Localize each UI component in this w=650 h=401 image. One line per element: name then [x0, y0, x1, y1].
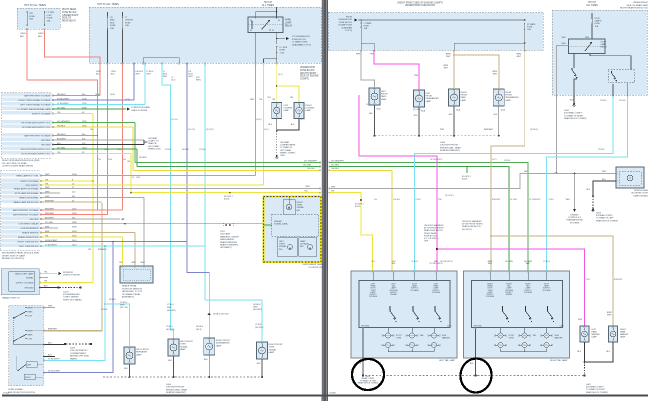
svg-text:FUSE: FUSE [110, 25, 116, 27]
svg-text:LT BLU: LT BLU [548, 199, 555, 201]
svg-text:7.5A: 7.5A [280, 51, 285, 54]
svg-text:PARK: PARK [461, 96, 467, 99]
svg-text:(ON REAR COMPT,: (ON REAR COMPT, [586, 386, 604, 389]
svg-text:WHT: WHT [561, 37, 566, 39]
svg-text:DK GRN: DK GRN [139, 157, 147, 159]
svg-text:(30 T): (30 T) [492, 159, 497, 161]
svg-text:PARK: PARK [28, 310, 34, 313]
svg-text:YEL: YEL [44, 281, 48, 283]
svg-text:(UNDER RIGHT: (UNDER RIGHT [62, 15, 79, 17]
svg-text:TO REAR OF RIGHT: TO REAR OF RIGHT [564, 114, 584, 117]
svg-text:LT BLU: LT BLU [199, 149, 206, 151]
svg-text:REAR SEAT): REAR SEAT) [62, 20, 76, 23]
svg-text:YEL: YEL [90, 129, 94, 131]
svg-text:BRN/WHT: BRN/WHT [484, 129, 494, 131]
svg-text:BLK: BLK [449, 114, 453, 116]
svg-text:BLK: BLK [48, 355, 52, 357]
svg-text:PANEL DIM SIGNAL: PANEL DIM SIGNAL [19, 197, 39, 200]
svg-text:(DIAGRAM: (DIAGRAM [342, 26, 353, 29]
svg-text:MULTIFUNCTION SWITCH: MULTIFUNCTION SWITCH [8, 392, 35, 394]
svg-text:(DIAGRAM 2 OF 3): (DIAGRAM 2 OF 3) [292, 43, 311, 46]
svg-text:ORG: ORG [104, 149, 109, 151]
svg-text:BLK: BLK [20, 36, 25, 38]
svg-text:SIGNAL: SIGNAL [26, 276, 34, 279]
svg-text:SIGNAL: SIGNAL [269, 348, 277, 351]
svg-text:LOW: LOW [28, 338, 33, 340]
svg-text:BLK: BLK [48, 343, 52, 345]
svg-text:BATT/PRSTRKT VOLTAGE: BATT/PRSTRKT VOLTAGE [13, 213, 39, 216]
svg-text:FUSE: FUSE [125, 22, 131, 24]
svg-text:WHT: WHT [305, 186, 310, 188]
svg-text:DASH BEHIND: DASH BEHIND [220, 238, 235, 241]
svg-text:LINES SYSTEM: LINES SYSTEM [131, 110, 147, 112]
svg-text:(30 S): (30 S) [196, 329, 202, 331]
svg-text:LAMP: LAMP [269, 351, 275, 354]
svg-text:LT BLU: LT BLU [504, 160, 511, 162]
svg-text:YEL: YEL [259, 99, 263, 101]
svg-text:COMPARTMENT: COMPARTMENT [70, 352, 87, 355]
svg-text:LAMP: LAMP [620, 336, 626, 339]
svg-text:INTERIOR: INTERIOR [63, 272, 73, 274]
svg-text:LT BLU: LT BLU [600, 100, 607, 102]
svg-text:(TO RR GPS 1): (TO RR GPS 1) [429, 263, 443, 265]
svg-text:ALL TIMES: ALL TIMES [262, 4, 274, 7]
svg-text:RIGHT INTEGRATION MODULE (RIM): RIGHT INTEGRATION MODULE (RIM) [2, 159, 40, 162]
svg-text:BLK: BLK [204, 359, 208, 361]
svg-text:UNDERHOOD: UNDERHOOD [338, 19, 352, 21]
svg-text:BLK: BLK [414, 115, 418, 117]
svg-text:PARK: PARK [381, 95, 387, 98]
svg-text:(ON PASSENGER: (ON PASSENGER [63, 293, 80, 296]
svg-text:ORG/: ORG/ [38, 33, 44, 35]
svg-text:LAMP: LAMP [216, 344, 222, 347]
svg-text:LT BLU: LT BLU [411, 261, 418, 263]
svg-text:PANEL): PANEL) [70, 357, 78, 360]
svg-text:HOT AT ALL TIMES: HOT AT ALL TIMES [24, 4, 46, 7]
svg-text:(30 WHT): (30 WHT) [167, 310, 176, 312]
svg-text:VOLTAGE: VOLTAGE [486, 295, 495, 298]
svg-text:18: 18 [132, 177, 134, 179]
svg-text:LT PARK: LT PARK [364, 22, 373, 25]
svg-text:LT BLU: LT BLU [619, 100, 626, 102]
svg-text:YEL/BLK: YEL/BLK [393, 199, 401, 201]
svg-text:(30 GRN/WHT): (30 GRN/WHT) [430, 159, 443, 161]
svg-text:TURN SIGNAL/: TURN SIGNAL/ [8, 388, 24, 391]
svg-text:YEL: YEL [267, 97, 271, 99]
svg-text:RT PARK: RT PARK [527, 23, 536, 26]
svg-text:LEFT REAR: LEFT REAR [148, 145, 160, 148]
svg-text:SIDEMARKER: SIDEMARKER [426, 97, 440, 100]
svg-text:PANEL LAMP SW SIG SIG: PANEL LAMP SW SIG SIG [13, 201, 38, 204]
svg-text:LT BLU: LT BLU [543, 261, 550, 263]
svg-text:LT BLU: LT BLU [255, 324, 262, 326]
svg-text:LT BLU: LT BLU [166, 326, 173, 328]
svg-text:BLK: BLK [124, 368, 128, 370]
svg-text:PARK: PARK [28, 333, 34, 336]
svg-text:INSTRUMENT PANEL MODULE (IPM): INSTRUMENT PANEL MODULE (IPM) [2, 252, 39, 255]
svg-text:HOT AT ALL TIMES: HOT AT ALL TIMES [97, 3, 119, 6]
svg-text:(RIGHT SIDE OF DASH: (RIGHT SIDE OF DASH [2, 254, 25, 257]
svg-text:G100: G100 [166, 384, 172, 386]
svg-text:RED: RED [585, 37, 590, 39]
svg-text:15A: 15A [29, 18, 33, 21]
svg-text:DK GRN: DK GRN [57, 107, 65, 109]
svg-text:85: 85 [250, 30, 252, 32]
svg-text:BUS: BUS [110, 22, 115, 24]
svg-text:(30 GRN): (30 GRN) [413, 109, 421, 111]
svg-text:OF BRAKE PEDAL: OF BRAKE PEDAL [122, 293, 141, 296]
svg-text:(30 W): (30 W) [256, 119, 262, 121]
svg-text:(ON RIGHT FRONT: (ON RIGHT FRONT [166, 387, 185, 389]
svg-text:REAR FORESHELL: REAR FORESHELL [220, 244, 240, 247]
svg-text:VOLTAGE: VOLTAGE [410, 289, 419, 292]
svg-text:PARK LAMP RLY CTRL: PARK LAMP RLY CTRL [16, 174, 39, 177]
svg-text:RIGHT REAR: RIGHT REAR [424, 232, 437, 235]
svg-text:GMLAN: GMLAN [274, 220, 282, 223]
svg-text:BATT/PRSTRKT VOLTAGE: BATT/PRSTRKT VOLTAGE [24, 134, 51, 137]
svg-text:WHT: WHT [48, 306, 53, 308]
svg-text:DK BLU: DK BLU [182, 149, 189, 151]
svg-text:ORG: ORG [117, 149, 122, 151]
svg-text:GROUND: GROUND [29, 219, 39, 221]
svg-text:ON LEFT SIDE OF REAR: ON LEFT SIDE OF REAR [2, 162, 27, 165]
svg-text:BRN: BRN [132, 262, 137, 264]
svg-text:DK GRN/WHT: DK GRN/WHT [304, 160, 318, 162]
svg-text:WHT: WHT [45, 196, 50, 198]
svg-text:LT BLU: LT BLU [598, 149, 605, 151]
svg-text:CLUSTER (IPC): CLUSTER (IPC) [308, 267, 324, 269]
svg-text:REPEATER: REPEATER [136, 351, 148, 354]
svg-text:LIGHTS SYSTEM: LIGHTS SYSTEM [63, 275, 80, 277]
svg-text:WHT: WHT [45, 226, 50, 228]
svg-text:SIGNAL: SIGNAL [279, 245, 287, 248]
svg-text:TURN: TURN [509, 337, 515, 339]
svg-text:DK GRN: DK GRN [303, 164, 311, 166]
svg-text:ON REAR: ON REAR [280, 141, 290, 144]
svg-text:(30 WHT): (30 WHT) [253, 309, 262, 311]
svg-text:(ON CROSSBODY: (ON CROSSBODY [70, 350, 88, 352]
svg-text:COMPT, UNDER REAR SHELF): COMPT, UNDER REAR SHELF) [2, 165, 33, 168]
svg-text:TAIL: TAIL [420, 334, 424, 337]
svg-text:TO REAR OF LEFT: TO REAR OF LEFT [596, 217, 614, 220]
svg-text:YEL: YEL [272, 99, 276, 101]
svg-text:BATT/PRSTRKT VOLTAGE: BATT/PRSTRKT VOLTAGE [24, 94, 51, 97]
svg-text:FENDER RAIL, NEAR: FENDER RAIL, NEAR [440, 146, 461, 149]
svg-text:BUMPER BRACKET): BUMPER BRACKET) [440, 149, 460, 152]
svg-text:TO REAR OF: TO REAR OF [280, 146, 293, 149]
svg-text:WHT: WHT [517, 56, 522, 58]
svg-text:RED/WHT: RED/WHT [45, 213, 55, 215]
svg-text:LAMP: LAMP [284, 109, 290, 112]
svg-text:SIGNAL: SIGNAL [297, 206, 305, 209]
svg-text:SIGNAL: SIGNAL [180, 345, 188, 348]
svg-text:BRN/WHT: BRN/WHT [45, 200, 55, 202]
svg-text:(30 Y10): (30 Y10) [120, 307, 128, 309]
svg-text:(30 Y56): (30 Y56) [188, 129, 195, 131]
svg-text:LAMP (CHMSL): LAMP (CHMSL) [633, 194, 648, 197]
svg-text:RIGHT REAR FUSE BLOCK: RIGHT REAR FUSE BLOCK [620, 6, 648, 9]
svg-text:LAMP: LAMP [180, 348, 186, 351]
svg-text:DK BLU (30 Y56): DK BLU (30 Y56) [213, 314, 229, 316]
svg-text:(30 Y): (30 Y) [264, 129, 269, 131]
svg-text:LEFT TURN SW SIG: LEFT TURN SW SIG [19, 246, 39, 248]
svg-text:G104: G104 [440, 142, 446, 144]
svg-text:DK GRN/WHT: DK GRN/WHT [57, 121, 71, 123]
svg-text:(30 B105): (30 B105) [530, 129, 538, 131]
svg-text:BRN/WHT: BRN/WHT [98, 249, 108, 251]
svg-text:DK GRN/WHT: DK GRN/WHT [529, 199, 541, 201]
svg-text:DK GRN: DK GRN [510, 199, 518, 201]
svg-text:RIGHT: RIGHT [25, 377, 31, 379]
svg-text:REAR FUSE BLOCK: REAR FUSE BLOCK [424, 229, 443, 232]
svg-text:LAMP: LAMP [592, 336, 598, 339]
svg-text:(ON DASH: (ON DASH [220, 233, 231, 236]
svg-text:LT BLU/WHT: LT BLU/WHT [57, 103, 69, 105]
svg-text:BLK: BLK [494, 114, 498, 116]
svg-text:REAR SHOCK TOWER): REAR SHOCK TOWER) [358, 382, 379, 385]
svg-text:LAMP: LAMP [505, 99, 511, 102]
svg-text:RR TURN SIGN SUPPLY VOL: RR TURN SIGN SUPPLY VOL [21, 122, 51, 124]
svg-text:WHT: WHT [45, 187, 50, 189]
svg-text:DK BLU: DK BLU [109, 299, 116, 301]
svg-text:170608: 170608 [329, 393, 337, 395]
svg-text:LEFT FRONT: LEFT FRONT [136, 349, 150, 351]
svg-text:RIGHT TAIL LAMP: RIGHT TAIL LAMP [550, 359, 568, 362]
svg-text:15A: 15A [47, 19, 51, 22]
svg-text:ON BODY HARNESS: ON BODY HARNESS [424, 224, 444, 227]
svg-text:BRN/WHT: BRN/WHT [614, 279, 623, 281]
svg-text:SIGNAL: SIGNAL [390, 293, 397, 296]
svg-text:ASSEMBLY): ASSEMBLY) [122, 296, 134, 299]
svg-text:INSTRUMENT PANEL: INSTRUMENT PANEL [303, 263, 325, 266]
svg-text:VOLTAGE: VOLTAGE [432, 291, 441, 294]
svg-text:FUSE: FUSE [47, 18, 53, 20]
svg-text:WHT: WHT [45, 174, 50, 176]
svg-text:LEFT FRONT: LEFT FRONT [180, 341, 194, 343]
svg-text:LO SPEED GMLAN SERIAL DATA: LO SPEED GMLAN SERIAL DATA [17, 108, 51, 111]
svg-text:COMPT): COMPT) [300, 79, 309, 81]
svg-text:WHT): WHT) [196, 80, 201, 82]
svg-text:IND: IND [279, 249, 283, 251]
svg-text:FROM: FROM [346, 17, 352, 19]
svg-text:(30 GPS 1): (30 GPS 1) [445, 195, 454, 197]
svg-text:SIDEMARKER: SIDEMARKER [216, 342, 230, 345]
svg-text:COMPUTER DATA: COMPUTER DATA [131, 106, 150, 109]
svg-text:RIGHT TURN SW SIG: RIGHT TURN SW SIG [18, 241, 39, 243]
svg-text:C406: C406 [560, 326, 564, 328]
svg-text:DK GRN/WHT: DK GRN/WHT [331, 160, 345, 162]
svg-text:C207: C207 [220, 231, 226, 233]
svg-text:YEL: YEL [88, 249, 92, 251]
svg-text:DK BLU/WHT: DK BLU/WHT [48, 371, 61, 373]
svg-text:WHT: WHT [356, 54, 361, 56]
svg-text:FUSE BLOCK: FUSE BLOCK [300, 70, 315, 72]
svg-text:BRAKE SENSOR SIG: BRAKE SENSOR SIG [18, 236, 39, 239]
svg-text:FUSE BLOCK: FUSE BLOCK [62, 12, 77, 14]
svg-text:DK BLU: DK BLU [196, 326, 204, 328]
svg-text:LR STOP/TURN SUPPLY VOL: LR STOP/TURN SUPPLY VOL [21, 153, 51, 155]
svg-text:LT BLU/WHT: LT BLU/WHT [45, 244, 57, 246]
svg-text:REAR SHOCK TOWER): REAR SHOCK TOWER) [596, 219, 618, 222]
svg-text:SIDE OF REAR SEAT: SIDE OF REAR SEAT [626, 4, 648, 7]
svg-text:FUSE: FUSE [29, 16, 35, 18]
svg-text:POSITION SENSOR: POSITION SENSOR [122, 288, 142, 290]
svg-text:LOW: LOW [28, 315, 33, 317]
svg-text:RELAY: RELAY [601, 46, 608, 49]
svg-text:BLK: BLK [257, 363, 261, 365]
svg-text:BLK: BLK [168, 360, 172, 362]
svg-text:HEADLAMPS ON SIGNAL: HEADLAMPS ON SIGNAL [14, 187, 40, 190]
svg-text:LAMP: LAMP [381, 98, 387, 101]
svg-text:YEL: YEL [119, 262, 123, 264]
svg-text:YEL: YEL [371, 261, 375, 263]
svg-text:TO REAR OF RIGHT: TO REAR OF RIGHT [586, 388, 606, 391]
svg-text:(30 B): (30 B) [125, 99, 130, 101]
svg-text:TURN: TURN [180, 344, 186, 346]
svg-text:OUTAGE: OUTAGE [300, 243, 309, 246]
svg-text:BRN/WHT: BRN/WHT [48, 329, 58, 331]
svg-text:ON BODY HARNESS: ON BODY HARNESS [462, 220, 482, 223]
svg-text:LEFT TAIL LAMP: LEFT TAIL LAMP [439, 359, 456, 362]
svg-text:30: 30 [278, 20, 280, 22]
svg-text:FUSE: FUSE [280, 50, 286, 52]
svg-text:TURN: TURN [269, 347, 275, 349]
svg-text:G209: G209 [70, 348, 76, 350]
svg-text:LT BLU/WHT: LT BLU/WHT [48, 359, 60, 361]
svg-text:LAMPS: LAMPS [595, 20, 602, 23]
svg-text:(RIGHT FRONT: (RIGHT FRONT [300, 73, 317, 75]
svg-text:RED/BLK: RED/BLK [57, 134, 66, 136]
svg-text:B-105: B-105 [462, 179, 468, 181]
svg-text:CHROM: CHROM [125, 20, 133, 22]
svg-text:MARKER: MARKER [442, 336, 451, 339]
svg-text:LAMP: LAMP [300, 240, 306, 243]
svg-text:LO SRS: LO SRS [280, 47, 288, 49]
svg-text:REAR FUSE BLOCK: REAR FUSE BLOCK [462, 225, 481, 228]
svg-text:WHT: WHT [607, 315, 612, 317]
svg-text:SIDE OF ENGINE: SIDE OF ENGINE [300, 76, 319, 78]
svg-text:LT PARK FUSE: LT PARK FUSE [292, 41, 308, 44]
svg-text:YEL: YEL [127, 161, 131, 163]
svg-text:PARK: PARK [285, 19, 292, 22]
svg-text:86: 86 [250, 20, 252, 22]
svg-text:(30 SCN): (30 SCN) [206, 129, 214, 131]
svg-text:(ATTACHED TO TOP: (ATTACHED TO TOP [122, 290, 143, 293]
svg-text:BRN: BRN [45, 231, 50, 233]
svg-text:DK BLU/WHT: DK BLU/WHT [45, 240, 58, 242]
svg-text:PNK: PNK [578, 319, 583, 321]
svg-text:BLK/WHT: BLK/WHT [57, 138, 67, 140]
svg-text:LT BLU: LT BLU [165, 149, 172, 151]
svg-text:BRAKE SENSOR: BRAKE SENSOR [22, 231, 39, 234]
svg-text:TAIL: TAIL [533, 334, 537, 337]
svg-text:RED/BLK: RED/BLK [57, 94, 66, 96]
svg-text:LAMP: LAMP [461, 99, 467, 102]
svg-text:WHEEL,G305: WHEEL,G305 [148, 148, 161, 150]
svg-text:BLK: BLK [38, 36, 43, 38]
svg-text:HARNESS, UNDER: HARNESS, UNDER [220, 235, 239, 238]
svg-text:PNK: PNK [414, 75, 419, 77]
svg-text:VOLTAGE: VOLTAGE [542, 289, 551, 292]
svg-text:GROUND: GROUND [41, 144, 51, 146]
svg-text:1340: 1340 [108, 159, 112, 161]
svg-text:(IN REAR COMPT,: (IN REAR COMPT, [596, 214, 613, 217]
svg-text:BLU: BLU [172, 80, 176, 82]
svg-text:BATT/PRSTRKT VOLTAGE: BATT/PRSTRKT VOLTAGE [13, 209, 39, 212]
svg-text:SIGNAL: SIGNAL [506, 293, 513, 296]
svg-text:(30 A): (30 A) [110, 93, 115, 96]
svg-text:REAR/STEERING: REAR/STEERING [220, 241, 237, 244]
svg-text:LAMP: LAMP [136, 353, 142, 356]
svg-text:RIGHT REAR: RIGHT REAR [62, 8, 76, 11]
svg-text:YEL/BLK: YEL/BLK [307, 168, 316, 170]
svg-text:DK GRN: DK GRN [57, 147, 65, 149]
svg-text:DK GRN: DK GRN [505, 261, 513, 263]
svg-text:STOP LAMP SW SIGNAL: STOP LAMP SW SIGNAL [15, 192, 40, 195]
svg-text:SIGNAL DATA: SIGNAL DATA [274, 223, 288, 226]
svg-text:642: 642 [123, 159, 126, 161]
svg-text:ON REAR: ON REAR [148, 137, 158, 140]
svg-text:WHT: WHT [45, 191, 50, 193]
svg-text:VOLTAGE: VOLTAGE [369, 295, 378, 298]
svg-text:BUMPER BRACKET): BUMPER BRACKET) [166, 391, 186, 394]
svg-text:SUPPLY VOLTAGE: SUPPLY VOLTAGE [32, 112, 51, 115]
svg-text:LAMP: LAMP [285, 21, 292, 24]
svg-text:TO UNDERHOOD: TO UNDERHOOD [292, 36, 310, 38]
svg-text:BLK: BLK [369, 113, 373, 115]
svg-text:MARKER: MARKER [555, 336, 564, 339]
svg-text:ORG/: ORG/ [20, 33, 26, 35]
svg-text:B-105: B-105 [355, 206, 361, 208]
svg-text:LR TURN SIGN SUPPLY VOL: LR TURN SIGN SUPPLY VOL [22, 127, 52, 129]
svg-text:WHT: WHT [561, 43, 566, 45]
svg-text:WHT: WHT [167, 307, 172, 309]
svg-text:RIGHT FRONT: RIGHT FRONT [216, 340, 231, 342]
svg-text:RR STOP/TURN SUPPLY VOL: RR STOP/TURN SUPPLY VOL [21, 149, 52, 151]
svg-text:VOLTAGE: VOLTAGE [524, 291, 533, 294]
svg-text:BEHIND GLOVE BOX): BEHIND GLOVE BOX) [2, 258, 24, 260]
svg-text:(RIGHT FRONT SIDE OF ENGINE CO: (RIGHT FRONT SIDE OF ENGINE COMPT) [397, 2, 443, 4]
svg-text:UNDERHOOD: UNDERHOOD [300, 67, 315, 69]
svg-text:LT TRN: LT TRN [47, 12, 55, 14]
svg-text:LOW SPEED GMLAN: LOW SPEED GMLAN [18, 223, 39, 226]
svg-text:IND: IND [300, 246, 304, 248]
svg-text:LEFT REAR: LEFT REAR [280, 149, 292, 152]
svg-text:GROUND: GROUND [41, 140, 51, 142]
svg-text:(30 A): (30 A) [95, 93, 100, 96]
svg-text:PNK: PNK [440, 129, 445, 131]
svg-text:BRAKE PEDAL: BRAKE PEDAL [122, 285, 138, 288]
svg-text:LAMP: LAMP [601, 43, 607, 46]
svg-text:(30 Y): (30 Y) [300, 119, 305, 121]
svg-text:RIGHT TURN SIGNAL VOLTAGE: RIGHT TURN SIGNAL VOLTAGE [19, 99, 51, 102]
svg-text:(30 Y): (30 Y) [278, 74, 283, 76]
svg-text:(30 SCN): (30 SCN) [255, 327, 264, 329]
svg-text:GROUND: GROUND [24, 287, 34, 289]
svg-text:LAMP: LAMP [306, 109, 312, 112]
svg-text:LEFT TURN SIGNAL VOLTAGE: LEFT TURN SIGNAL VOLTAGE [20, 103, 51, 106]
svg-text:LOW REFERENCE: LOW REFERENCE [20, 228, 39, 230]
svg-text:HAZARD SWITCH: HAZARD SWITCH [2, 297, 20, 300]
svg-text:TURN: TURN [396, 337, 402, 339]
svg-text:BACK LIGHT LAMP: BACK LIGHT LAMP [15, 272, 34, 275]
svg-text:REAR SHOCK TOWER): REAR SHOCK TOWER) [586, 391, 608, 394]
svg-text:DK BLU/WHT: DK BLU/WHT [57, 98, 70, 100]
svg-text:(ON RIGHT FRONT: (ON RIGHT FRONT [440, 145, 459, 147]
svg-text:YEL: YEL [290, 97, 294, 99]
svg-text:1 OF 3): 1 OF 3) [345, 30, 352, 32]
svg-text:IND: IND [297, 210, 301, 212]
